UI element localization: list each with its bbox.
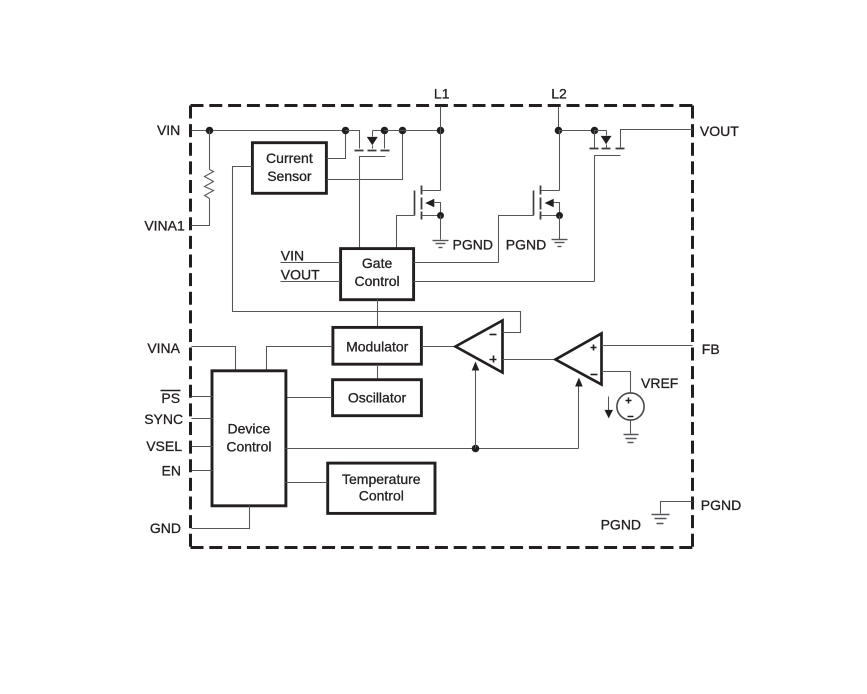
transistor Q1 high-side PMOS (VIN side) source stub	[346, 131, 360, 149]
wire device control to modulator input	[267, 347, 333, 371]
svg-text:PS: PS	[161, 390, 180, 406]
wire Q2 gate to gate control	[397, 216, 415, 249]
svg-text:VIN: VIN	[281, 247, 304, 263]
block Modulator	[333, 327, 422, 364]
net label PGND (right)	[506, 236, 546, 252]
node Q1 drain rail junction	[381, 127, 389, 135]
transistor Q3 gate	[595, 156, 621, 282]
svg-text:EN: EN	[162, 462, 181, 478]
wire GND pin to device control	[192, 506, 250, 529]
wire resistor bottom lead to VINA1 pin	[192, 199, 210, 226]
svg-text:Control: Control	[359, 487, 404, 503]
wire VOUT sense into gate control	[281, 281, 341, 283]
net label PGND (left)	[453, 236, 493, 252]
node L2 junction	[555, 127, 563, 135]
wire VINA pin to device control	[192, 347, 236, 371]
svg-text:PGND: PGND	[701, 497, 741, 513]
node rail tap 2	[399, 127, 407, 135]
wire modulator output to PWM comparator	[422, 346, 456, 348]
svg-text:VOUT: VOUT	[281, 266, 320, 282]
wire Q2 source to ground	[440, 216, 442, 240]
svg-text:Oscillator: Oscillator	[348, 390, 407, 406]
wire device control feedback bus	[286, 448, 579, 450]
svg-text:Control: Control	[226, 439, 271, 455]
net label PGND (inside bottom)	[601, 516, 641, 532]
transistor Q3 drain stub to VOUT rail	[621, 130, 693, 148]
svg-text:Current: Current	[266, 150, 313, 166]
svg-text:VREF: VREF	[641, 375, 678, 391]
svg-text:VIN: VIN	[157, 122, 180, 138]
svg-text:VSEL: VSEL	[146, 438, 182, 454]
net label VOUT (gate control input)	[281, 266, 320, 282]
svg-text:Control: Control	[355, 273, 400, 289]
dashed IC boundary	[191, 106, 693, 548]
pin label SYNC	[144, 411, 183, 427]
pin label VINA1	[144, 218, 185, 234]
wire L2 pin down to rail	[558, 107, 560, 131]
block Temperature Control	[328, 463, 435, 513]
svg-text:Temperature: Temperature	[342, 471, 421, 487]
wire Q4 gate to gate control	[499, 216, 534, 263]
wire VSEL pin stub	[192, 446, 213, 448]
wire gate control to modulator	[377, 300, 379, 328]
pin label VINA	[147, 340, 180, 356]
wire PS pin stub	[192, 396, 213, 398]
wire arrow into PWM comparator	[472, 362, 480, 449]
svg-text:VINA: VINA	[147, 340, 180, 356]
block Current Sensor	[252, 143, 326, 194]
wire rail from Q1 drain to L1 node	[385, 130, 441, 132]
wire Q4 source to ground	[559, 216, 561, 240]
current direction arrow beside VREF	[605, 397, 614, 419]
node L1 junction	[437, 127, 445, 135]
pin label FB	[702, 341, 720, 357]
wire device control to temperature control	[286, 482, 328, 484]
ground PGND (bottom right)	[652, 515, 670, 524]
pin label L2	[551, 85, 567, 101]
transistor Q3 bulk contact bar	[602, 148, 611, 150]
wire PGND pin to ground (bottom right)	[661, 502, 693, 514]
svg-text:GND: GND	[150, 520, 181, 536]
svg-text:FB: FB	[702, 341, 720, 357]
node Q2 source junction	[437, 212, 444, 219]
pin label PGND (outside border)	[701, 497, 741, 513]
svg-text:PGND: PGND	[506, 236, 546, 252]
voltage source VREF	[617, 393, 644, 420]
pin label PS (with overline)	[161, 390, 181, 406]
transistor Q1 source contact bar	[355, 150, 364, 152]
pin label EN	[162, 462, 181, 478]
node Q4 source junction	[556, 212, 563, 219]
wire rail L2 node to Q3 source	[559, 130, 595, 132]
svg-text:Gate: Gate	[362, 255, 393, 271]
ground (VREF)	[624, 435, 639, 443]
node Q3 source rail junction	[591, 127, 599, 135]
wire VIN sense into gate control	[281, 262, 341, 264]
ground PGND (Q4 source)	[552, 240, 568, 247]
pin label VIN	[157, 122, 180, 138]
svg-text:VINA1: VINA1	[144, 218, 185, 234]
wire modulator bottom to oscillator	[377, 365, 379, 380]
svg-text:PGND: PGND	[453, 236, 493, 252]
wire current sensor output 1 to VIN rail	[327, 131, 346, 159]
transistor Q3 high-side PMOS (VOUT side) source stub	[594, 131, 596, 148]
pin label VOUT	[700, 123, 739, 139]
op-amp U2 error amplifier	[556, 334, 602, 385]
block Gate Control	[341, 249, 414, 300]
node feedback bus junction	[472, 445, 480, 453]
ground PGND (Q2 source)	[433, 241, 449, 248]
net label VIN (gate control input)	[281, 247, 304, 263]
svg-text:L2: L2	[551, 85, 567, 101]
node VIN/resistor junction	[206, 127, 214, 135]
block Oscillator	[333, 380, 422, 416]
transistor Q1 drain contact bar	[381, 150, 390, 152]
node rail / current sensor tap	[342, 127, 350, 135]
wire EN pin stub	[192, 470, 213, 472]
transistor Q1 body diode	[367, 131, 385, 149]
svg-text:SYNC: SYNC	[144, 411, 183, 427]
svg-text:Sensor: Sensor	[267, 168, 312, 184]
transistor Q1 gate	[360, 157, 386, 249]
block Device Control	[212, 371, 286, 506]
wire L1 pin to rail and down to Q2 drain	[440, 107, 442, 191]
resistor R1 (VIN to VINA1)	[205, 170, 214, 199]
wire FB pin to error amp plus input	[602, 345, 693, 347]
net label VREF	[641, 375, 678, 391]
transistor Q3 source contact bar	[590, 148, 599, 150]
wire gate control to Q3 gate	[414, 281, 595, 283]
transistor Q3 drain contact bar	[616, 148, 625, 150]
wire gate control to Q4 gate	[414, 262, 499, 264]
transistor Q1 drain stub	[384, 131, 386, 149]
wire device control to oscillator	[286, 397, 333, 399]
svg-text:L1: L1	[434, 85, 450, 101]
wire L2 node down to Q4 drain	[559, 131, 561, 191]
wire resistor top lead	[209, 131, 211, 170]
wire current sensor output 2 to rail node	[327, 131, 403, 180]
svg-text:Device: Device	[228, 421, 271, 437]
transistor Q4 low-side NMOS (L2 side)	[534, 186, 560, 220]
transistor Q2 low-side NMOS (L1 side)	[415, 186, 441, 220]
wire VIN rail from border to first junction	[192, 130, 346, 132]
wire current sensor left output	[233, 167, 521, 333]
pin label L1	[434, 85, 450, 101]
op-amp U1 PWM comparator	[456, 321, 503, 373]
wire arrow into error amplifier	[575, 378, 583, 449]
transistor Q3 body diode	[595, 131, 612, 148]
wire comparator minus feedback loop	[503, 312, 521, 333]
wire VREF to ground	[630, 421, 632, 435]
pin label GND	[150, 520, 181, 536]
transistor Q1 bulk contact bar	[368, 150, 377, 152]
svg-text:Modulator: Modulator	[346, 338, 409, 354]
wire SYNC pin stub	[192, 418, 213, 420]
pin label VSEL	[146, 438, 182, 454]
wire error amp minus input to VREF	[602, 372, 631, 393]
svg-text:VOUT: VOUT	[700, 123, 739, 139]
svg-text:PGND: PGND	[601, 516, 641, 532]
wire comparator plus to error amp output	[503, 359, 556, 361]
